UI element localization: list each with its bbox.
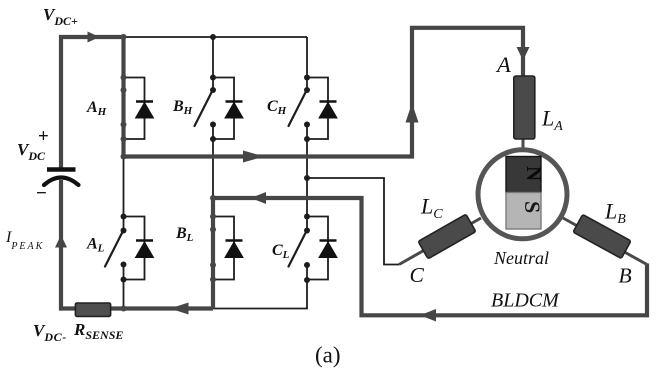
svg-text:Neutral: Neutral bbox=[493, 248, 549, 268]
svg-text:A: A bbox=[495, 52, 511, 77]
svg-text:(a): (a) bbox=[315, 343, 341, 368]
svg-text:C: C bbox=[410, 263, 425, 287]
svg-text:+: + bbox=[38, 126, 49, 147]
svg-text:B: B bbox=[619, 264, 632, 288]
svg-text:N: N bbox=[522, 166, 546, 181]
svg-text:BLDCM: BLDCM bbox=[491, 290, 560, 312]
svg-text:S: S bbox=[520, 201, 545, 213]
svg-text:−: − bbox=[36, 183, 47, 204]
